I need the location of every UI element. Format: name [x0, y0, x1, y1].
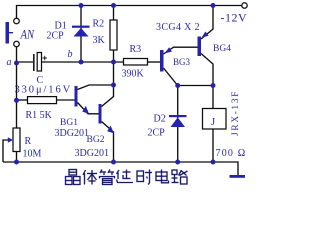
svg-text:3DG201: 3DG201: [75, 148, 109, 159]
svg-text:BG4: BG4: [213, 44, 231, 54]
svg-text:BG3: BG3: [173, 57, 191, 67]
svg-text:3CG4 X 2: 3CG4 X 2: [156, 22, 200, 33]
svg-text:BG1: BG1: [60, 118, 78, 128]
svg-text:10M: 10M: [23, 149, 42, 160]
svg-text:J: J: [211, 117, 215, 128]
svg-text:390K: 390K: [122, 69, 145, 80]
svg-text:2CP: 2CP: [47, 31, 65, 42]
svg-text:700 Ω: 700 Ω: [216, 148, 247, 159]
svg-text:2CP: 2CP: [148, 128, 166, 139]
svg-text:3K: 3K: [93, 35, 106, 46]
svg-text:3DG201: 3DG201: [55, 128, 89, 139]
svg-text:R: R: [25, 136, 32, 147]
svg-text:b: b: [68, 49, 73, 60]
svg-text:a: a: [7, 57, 12, 68]
svg-text:-12V: -12V: [221, 11, 248, 25]
svg-text:R3: R3: [130, 44, 142, 55]
svg-text:330μ/16V: 330μ/16V: [15, 85, 73, 96]
svg-text:D2: D2: [154, 114, 166, 125]
svg-text:JRX-13F: JRX-13F: [231, 90, 241, 136]
svg-text:AN: AN: [20, 28, 35, 42]
svg-text:BG2: BG2: [87, 135, 105, 145]
svg-text:R2: R2: [93, 19, 105, 30]
svg-text:R1 5K: R1 5K: [26, 110, 53, 121]
